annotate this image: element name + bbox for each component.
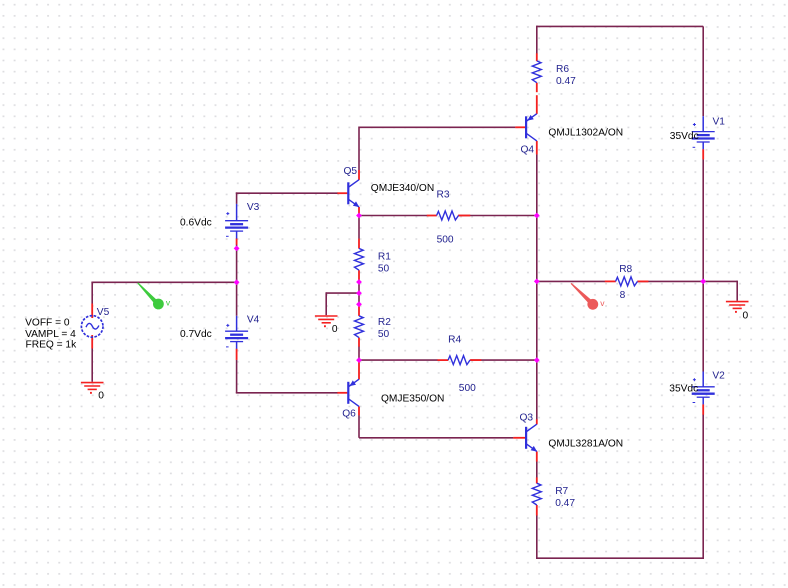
- svg-text:V4: V4: [247, 314, 260, 325]
- svg-text:0.6Vdc: 0.6Vdc: [180, 217, 212, 228]
- wire junction to V4 top: [236, 282, 238, 316]
- battery V2: [692, 372, 715, 405]
- junction R3 right / Q4 collector rail: [534, 213, 540, 219]
- svg-text:R8: R8: [619, 264, 632, 275]
- transistor Q4 PNP: [526, 114, 537, 141]
- wire V4 bottom vertical: [236, 360, 238, 393]
- svg-text:QMJL1302A/ON: QMJL1302A/ON: [548, 128, 623, 139]
- pin R6 bottom pin: [536, 83, 538, 93]
- pin R4 right pin: [470, 359, 482, 361]
- pin V4 minus pin 2: [236, 349, 238, 360]
- resistor R8 body: [616, 277, 638, 286]
- battery V4: [225, 316, 248, 349]
- svg-text:VAMPL = 4: VAMPL = 4: [25, 329, 76, 340]
- red voltage probe marker: [571, 283, 606, 310]
- junction ground stub node: [356, 290, 362, 296]
- pin R3 right pin: [458, 215, 470, 217]
- junction R8 right / V1 V2 rail / ground stub: [700, 279, 706, 285]
- wire R8 node to V2 top: [702, 281, 704, 371]
- svg-text:0: 0: [743, 310, 749, 321]
- sine source V5: [81, 316, 103, 338]
- svg-text:500: 500: [459, 383, 476, 394]
- resistor R6 body: [532, 61, 541, 83]
- svg-text:V3: V3: [247, 202, 260, 213]
- svg-text:R3: R3: [437, 189, 450, 200]
- svg-text:500: 500: [437, 234, 454, 245]
- wire right ground vertical: [736, 281, 738, 301]
- junction R1 bottom: [356, 279, 362, 285]
- wire R3 row left segment: [359, 215, 427, 217]
- transistor Q3 NPN: [526, 424, 537, 451]
- pin R3 left pin: [427, 215, 437, 217]
- svg-text:0.7Vdc: 0.7Vdc: [180, 329, 212, 340]
- wire Q5 collector vertical: [358, 127, 360, 171]
- battery V3: [225, 204, 248, 239]
- wire V5 to V3/V4 junction horizontal: [91, 281, 236, 283]
- wire R3 node down to R8 node: [536, 216, 538, 282]
- pin Q4 collector pin: [536, 141, 538, 155]
- svg-text:50: 50: [378, 264, 390, 275]
- svg-text:Q6: Q6: [342, 409, 356, 420]
- svg-text:V5: V5: [97, 307, 110, 318]
- wire Q6 collector vertical: [358, 415, 360, 438]
- wire V5 top lead vertical: [91, 282, 93, 303]
- wire R3 row right segment: [458, 215, 537, 217]
- ground 0 between R1 and R2: [315, 316, 338, 327]
- wire R8 row right segment: [638, 280, 703, 282]
- battery V1: [692, 116, 715, 149]
- svg-text:0: 0: [98, 391, 104, 402]
- wire V5 bottom to ground: [91, 349, 93, 382]
- wire top rail horizontal: [537, 25, 703, 27]
- wire V1 bottom to R8 node: [702, 159, 704, 281]
- pin Q3 collector pin: [536, 419, 538, 424]
- pin R2 bottom pin: [358, 338, 360, 347]
- resistor R1 body: [355, 248, 364, 270]
- pin V1 minus pin 2: [702, 149, 704, 159]
- pin R8 left pin: [605, 280, 616, 282]
- junction R4 right: [534, 357, 540, 363]
- svg-text:8: 8: [620, 290, 626, 301]
- wire Q3 emitter to R7: [536, 461, 538, 477]
- resistor R4 body: [448, 356, 470, 365]
- pin V5 plus pin 1: [91, 304, 93, 319]
- pin R4 left pin: [437, 359, 448, 361]
- wire bottom rail horizontal: [537, 557, 704, 559]
- pin Q4 emitter pin: [536, 95, 538, 114]
- resistor R3 body: [437, 211, 459, 220]
- svg-text:35Vdc: 35Vdc: [670, 131, 699, 142]
- pin V3 minus pin 2: [236, 238, 238, 244]
- svg-text:R7: R7: [555, 486, 568, 497]
- svg-text:Q5: Q5: [344, 166, 358, 177]
- svg-text:FREQ = 1k: FREQ = 1k: [26, 340, 78, 351]
- wire Q4 collector down to R3 node: [536, 154, 538, 215]
- svg-text:R4: R4: [448, 335, 461, 346]
- svg-text:R6: R6: [556, 64, 569, 75]
- pin R1 bottom pin: [358, 270, 360, 281]
- wire V2 bottom to bottom rail: [702, 415, 704, 560]
- pin V5 minus pin 2: [91, 335, 93, 349]
- pin Q4 base pin: [515, 126, 525, 128]
- pin V2 minus pin 2: [702, 404, 704, 414]
- wire V4 bottom to Q6 base horizontal: [236, 392, 338, 394]
- wire R2 bottom to R4 node: [358, 346, 360, 360]
- pin Q5 emitter pin: [358, 207, 360, 215]
- pin R7 top pin: [536, 477, 538, 483]
- svg-text:0.47: 0.47: [555, 498, 575, 509]
- wire Q6 collector to Q3 base horizontal: [359, 437, 513, 439]
- pin Q6 emitter pin: [358, 362, 360, 380]
- junction R8 left: [534, 279, 540, 285]
- wire Q5 emitter to R1: [358, 216, 360, 239]
- wire R8 node to right ground horizontal: [703, 280, 737, 282]
- pin R2 top pin: [358, 304, 360, 316]
- svg-text:v: v: [600, 298, 605, 308]
- svg-text:V1: V1: [713, 117, 726, 128]
- transistor Q5 NPN: [348, 180, 359, 207]
- svg-text:Q3: Q3: [520, 413, 534, 424]
- pin R1 top pin: [358, 239, 360, 249]
- pin Q3 base pin: [513, 437, 525, 439]
- green voltage probe marker: [137, 282, 171, 309]
- wire R4 node down to Q3 collector: [536, 360, 538, 419]
- wire V3 top to Q5 base horizontal: [236, 192, 338, 194]
- pin R8 right pin: [637, 280, 648, 282]
- ground 0 below V5: [81, 383, 104, 394]
- wire R8 row left segment: [537, 280, 605, 282]
- svg-text:QMJE350/ON: QMJE350/ON: [381, 393, 444, 404]
- wire R7 bottom to bottom rail: [536, 515, 538, 559]
- svg-text:0: 0: [332, 324, 338, 335]
- svg-text:50: 50: [378, 329, 390, 340]
- pin R6 top pin: [536, 53, 538, 61]
- svg-text:v: v: [166, 297, 171, 307]
- svg-text:VOFF = 0: VOFF = 0: [25, 317, 70, 328]
- wire R4 row right segment: [471, 359, 537, 361]
- pin Q3 emitter pin: [536, 451, 538, 461]
- wire Q5 collector to Q4 base horizontal: [359, 126, 515, 128]
- pin Q6 collector pin: [358, 406, 360, 415]
- wire R8 node down to R4 node: [536, 281, 538, 360]
- pin Q6 base pin: [337, 392, 347, 394]
- svg-text:QMJL3281A/ON: QMJL3281A/ON: [548, 438, 623, 449]
- svg-text:35Vdc: 35Vdc: [669, 384, 698, 395]
- wire V3 bottom to junction: [236, 245, 238, 283]
- transistor Q6 PNP: [348, 379, 359, 406]
- wire V3 top vertical: [236, 192, 238, 204]
- wire R4 row left segment: [359, 359, 438, 361]
- ground 0 right of R8: [726, 302, 749, 313]
- svg-text:QMJE340/ON: QMJE340/ON: [371, 183, 434, 194]
- junction below V3: [234, 246, 240, 252]
- junction Q5 emitter / R3 row: [356, 213, 362, 219]
- svg-text:R2: R2: [378, 317, 391, 328]
- wire top rail to V1: [702, 26, 704, 116]
- junction node V3/V4/V5: [234, 279, 240, 285]
- pin Q5 collector pin: [358, 170, 360, 180]
- svg-text:R1: R1: [378, 252, 391, 263]
- resistor R2 body: [355, 316, 364, 338]
- wire ground stub horizontal at node between R1 and R2: [326, 292, 359, 294]
- wire ground stub vertical: [325, 292, 327, 315]
- svg-text:0.47: 0.47: [556, 76, 576, 87]
- junction R2 top: [356, 301, 362, 307]
- pin R7 bottom pin: [536, 505, 538, 516]
- svg-text:V2: V2: [712, 370, 725, 381]
- resistor R7 body: [532, 483, 541, 505]
- pin Q5 base pin: [337, 192, 347, 194]
- wire top rail to R6: [536, 26, 538, 54]
- junction R2 bottom / R4 row / Q6 emitter: [356, 357, 362, 363]
- svg-text:Q4: Q4: [521, 145, 535, 156]
- wire R1 bottom to R2 top: [358, 281, 360, 305]
